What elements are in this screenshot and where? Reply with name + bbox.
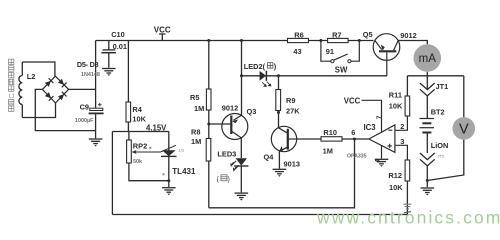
- svg-text:4.15V: 4.15V: [146, 123, 167, 132]
- wire pin 3 to R12: [395, 145, 408, 160]
- shunt reference TL431: [161, 132, 177, 188]
- vertical note "from L1 electromagnetic induction": [9, 59, 15, 111]
- diode D8 (bottom-right): [58, 92, 67, 101]
- ground (C10): [102, 69, 116, 77]
- switch SW (bypass): [321, 41, 359, 63]
- svg-text:L2: L2: [27, 72, 36, 81]
- node R7 right: [358, 39, 361, 42]
- label (green): [217, 177, 230, 184]
- ground (IC3 pin4): [375, 159, 389, 167]
- node Q3 base junction: [207, 123, 210, 126]
- wire L2 bottom to bridge bottom: [22, 103, 55, 118]
- resistor R10 1M: [297, 138, 369, 140]
- svg-text:Q5: Q5: [363, 30, 373, 39]
- potentiometer RP2 50k: [129, 132, 169, 181]
- wire bottom outer net: [112, 214, 407, 216]
- svg-text:50k: 50k: [133, 159, 142, 165]
- svg-text:LED2(: LED2(: [244, 62, 266, 71]
- wiper arrow of RP2: [132, 145, 176, 154]
- svg-text:R10: R10: [323, 128, 337, 137]
- resistor R12 10K: [406, 181, 408, 215]
- svg-text:SW: SW: [335, 65, 348, 74]
- node junction rail/R5: [207, 39, 210, 42]
- svg-text:V: V: [459, 122, 469, 138]
- node LED2/R9 junction: [277, 74, 280, 77]
- wire pin 2 to R11: [395, 116, 408, 130]
- plus input mark: [388, 144, 392, 148]
- svg-text:43: 43: [293, 47, 301, 56]
- connector JT1 chevron 1: [420, 83, 435, 90]
- svg-text:R5: R5: [190, 93, 199, 102]
- node R9/Q4 collector: [277, 111, 280, 114]
- wire VCC to pin 7: [362, 100, 382, 131]
- ground (C9): [89, 139, 103, 147]
- wire battery top node: [407, 75, 463, 77]
- svg-text:www.cntronics.com: www.cntronics.com: [316, 208, 500, 228]
- svg-text:C9: C9: [80, 102, 89, 111]
- svg-text:R12: R12: [388, 171, 402, 180]
- svg-text:BT2: BT2: [431, 108, 445, 117]
- minus input mark: [388, 129, 392, 131]
- small connector mark at R12 bottom: [403, 204, 411, 213]
- wire V meter column: [427, 76, 464, 181]
- wire left drop to bottom net: [111, 132, 113, 215]
- svg-text:JT1: JT1: [436, 82, 449, 91]
- diode D7 (bottom-left): [45, 92, 54, 101]
- meter mA: [414, 44, 442, 72]
- wire 4.15V node: [112, 131, 168, 133]
- svg-text:6: 6: [351, 128, 355, 137]
- diode D6 (top-right): [58, 79, 67, 88]
- svg-text:L1: L1: [9, 94, 15, 100]
- node LED2 row / Q3 column: [240, 74, 243, 77]
- svg-text:LED3: LED3: [217, 149, 236, 158]
- resistor R11 10K: [406, 76, 408, 96]
- wire bottom inner net (R8 to IC3 out): [209, 139, 355, 208]
- svg-text:9012: 9012: [222, 103, 238, 112]
- node R7 left: [319, 39, 322, 42]
- capacitor C9 (polarized 1000uF): [89, 103, 104, 113]
- wire mA to battery node: [426, 72, 428, 90]
- inductor L2: [19, 62, 22, 118]
- bridge rectifier diamond D5-D8: [42, 76, 68, 103]
- wire bridge DC- to C9 ground node: [35, 89, 95, 130]
- svg-text:R11: R11: [389, 91, 402, 100]
- svg-text:1M: 1M: [194, 104, 204, 113]
- svg-text:91: 91: [326, 47, 334, 56]
- connector JT2 chevron 1: [420, 153, 435, 160]
- transistor Q4 9013 (NPN): [271, 126, 296, 168]
- connector JT1 chevron 2: [420, 89, 435, 96]
- svg-text:1000µF: 1000µF: [75, 118, 94, 124]
- power VCC tick: [159, 34, 166, 41]
- svg-text:2: 2: [400, 122, 404, 131]
- resistor R5 1M: [206, 89, 211, 110]
- capacitor C10 0.01: [101, 41, 116, 68]
- svg-text:D5- D8: D5- D8: [77, 60, 99, 69]
- LED3 (green): [231, 158, 249, 192]
- node junction rail/Q3-LED2 column: [240, 39, 243, 42]
- wire JT2 to ground node: [426, 166, 428, 187]
- svg-text:0.01: 0.01: [113, 42, 127, 51]
- svg-text:RP2: RP2: [133, 142, 147, 151]
- node RP2/TL431 anode junction: [167, 179, 170, 182]
- svg-text:1N4148: 1N4148: [81, 72, 100, 78]
- wire LED2 row: [242, 75, 388, 77]
- svg-text:R4: R4: [132, 105, 142, 114]
- resistor R8 1M: [206, 139, 211, 162]
- transistor Q3 9012 (PNP): [209, 41, 248, 159]
- transistor Q5 9012 (PNP): [373, 34, 400, 76]
- ground (LED3): [235, 193, 249, 201]
- svg-text:9012: 9012: [400, 31, 416, 40]
- wire VCC top rail: [96, 40, 374, 42]
- svg-text:R7: R7: [332, 30, 341, 39]
- diode D5 (top-left): [45, 78, 54, 87]
- svg-text:JT2: JT2: [438, 154, 445, 159]
- op-amp IC3 OPA335: [369, 125, 395, 152]
- resistor R6 43: [288, 38, 309, 42]
- svg-text:9013: 9013: [284, 160, 300, 169]
- ground (Q4 emitter): [273, 169, 287, 177]
- svg-text:7: 7: [376, 115, 383, 119]
- node battery ground junction: [426, 179, 429, 182]
- svg-text:TL431: TL431: [172, 167, 196, 176]
- wire R5/R8 column: [208, 41, 210, 208]
- svg-text:(: (: [217, 177, 220, 184]
- svg-text:IC3: IC3: [364, 123, 377, 132]
- LED2 (red): [260, 71, 271, 87]
- resistor R4 10K: [127, 41, 129, 132]
- wire L2 top to bridge top: [22, 62, 55, 76]
- svg-text:3: 3: [400, 137, 404, 146]
- svg-text:10K: 10K: [132, 114, 146, 123]
- resistor R9 27K: [278, 76, 280, 128]
- resistor R7 91: [328, 38, 349, 42]
- svg-text:1/1: 1/1: [179, 148, 185, 153]
- svg-text:27K: 27K: [286, 106, 300, 115]
- ground (TL431): [162, 188, 176, 196]
- svg-text:1M: 1M: [323, 147, 333, 156]
- svg-text:LiON: LiON: [431, 141, 449, 150]
- node IC3 output junction: [353, 138, 356, 141]
- connector JT2 chevron 2: [420, 159, 435, 166]
- svg-text:): ): [274, 62, 277, 71]
- svg-text:1M: 1M: [191, 137, 201, 146]
- svg-text:): ): [228, 177, 230, 184]
- svg-text:10K: 10K: [389, 183, 403, 192]
- ground (battery): [421, 188, 435, 196]
- meter V: [453, 117, 476, 140]
- svg-text:VCC: VCC: [344, 97, 361, 106]
- svg-text:VCC: VCC: [154, 25, 171, 34]
- battery BT2: [420, 96, 435, 153]
- svg-text:Q4: Q4: [264, 153, 275, 162]
- wire bridge DC+ column to rail and down to C9: [95, 41, 97, 139]
- svg-text:mA: mA: [419, 53, 437, 65]
- wire pin 4 to ground: [381, 146, 383, 159]
- wire bridge right corner to column: [69, 88, 96, 90]
- svg-text:R9: R9: [286, 96, 295, 105]
- svg-text:OPA335: OPA335: [347, 154, 367, 160]
- svg-text:Q3: Q3: [247, 107, 257, 116]
- svg-text:10K: 10K: [389, 101, 403, 110]
- wire Q5 collector to mA: [398, 41, 427, 45]
- svg-text:C10: C10: [111, 30, 125, 39]
- svg-text:R8: R8: [191, 127, 200, 136]
- label LED2(red): [244, 62, 277, 71]
- svg-text:R6: R6: [294, 30, 303, 39]
